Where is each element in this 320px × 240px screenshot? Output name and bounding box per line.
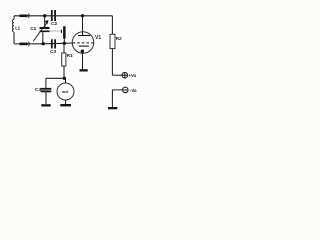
svg-text:C4: C4 — [35, 87, 41, 93]
wire plate lead — [82, 16, 84, 36]
svg-text:L1: L1 — [15, 26, 21, 31]
meter mA — [57, 83, 74, 100]
svg-text:R1: R1 — [67, 53, 73, 59]
antenna plug top — [20, 15, 27, 18]
capacitor C1 variable — [40, 27, 50, 29]
resistor R2 — [111, 16, 113, 35]
wire bottom tank rail — [14, 42, 73, 45]
node junction bottom of C1 — [42, 42, 45, 45]
wire top rail — [14, 15, 112, 17]
ground below -Va wire — [108, 107, 117, 109]
wire C1 upper branch — [44, 16, 46, 27]
wire grid cap lead down — [63, 39, 65, 44]
wire -Va to ground — [112, 90, 122, 107]
wire faint stub to grid capacitor — [50, 30, 62, 32]
tube cathode bar — [79, 45, 89, 47]
capacitor C4 — [41, 88, 52, 90]
inductor L1 — [12, 20, 14, 33]
svg-text:C3: C3 — [50, 49, 56, 55]
wire meter lead — [65, 78, 67, 83]
wire left rail of tank — [13, 16, 15, 44]
tube cathode dot — [81, 50, 85, 54]
node grid junction — [63, 42, 66, 45]
ground below meter — [60, 104, 71, 106]
svg-text:V1: V1 — [95, 35, 101, 41]
svg-text:mA: mA — [62, 89, 69, 94]
resistor R1 — [63, 43, 65, 53]
tube anode bar — [78, 35, 90, 37]
ground below C4 — [41, 104, 50, 106]
node cathode-rail junction — [63, 77, 66, 80]
wire C1 lower branch — [42, 32, 44, 44]
node plate junction on top rail — [81, 14, 84, 17]
wire meter to ground — [65, 100, 67, 104]
wire rail to C4 — [46, 78, 64, 88]
wire cathode to ground — [82, 51, 84, 69]
svg-text:-Va: -Va — [130, 88, 137, 93]
svg-text:+Va: +Va — [128, 73, 136, 78]
svg-text:C1: C1 — [30, 26, 36, 32]
terminal -Va — [123, 87, 129, 93]
grid capacitor thin plate — [61, 30, 62, 33]
wire to +Va — [112, 74, 122, 76]
grid capacitor thick plate — [63, 26, 66, 38]
tube V1 envelope — [72, 32, 94, 54]
node junction top of C1 — [43, 14, 46, 17]
capacitor C3 — [51, 39, 53, 48]
ground below cathode — [80, 69, 88, 71]
svg-text:C2: C2 — [51, 21, 57, 27]
terminal +Va — [122, 72, 128, 78]
earth plug bottom — [20, 43, 27, 46]
capacitor C2 — [51, 10, 53, 21]
svg-text:R2: R2 — [116, 36, 122, 42]
tube grid dashed — [73, 42, 94, 44]
wire C4 to ground — [45, 92, 47, 104]
